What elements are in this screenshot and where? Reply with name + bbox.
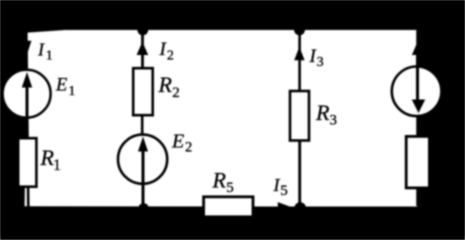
current source J (circle with down arrow)	[392, 54, 442, 116]
current arrow I1	[28, 41, 32, 53]
wire: bottom bus (merges with black border)	[27, 207, 416, 210]
junction: top of branch 2	[137, 25, 148, 36]
wire: right branch vertical (along white edge)	[416, 30, 419, 206]
current arrow I2	[137, 42, 149, 55]
resistor (right branch, unlabeled)	[406, 136, 429, 188]
junction: top of branch 3	[294, 25, 305, 36]
source E1 (circle with up arrow)	[3, 70, 51, 137]
wire: branch 3 upper (top bus to R3)	[298, 30, 301, 91]
current arrow I3	[294, 47, 304, 61]
resistor R3	[290, 91, 309, 141]
source E2 (circle with up arrow)	[118, 135, 167, 208]
wire: branch 3 lower (R3 to bottom bus)	[298, 140, 301, 208]
resistor R1	[18, 138, 36, 187]
wire: branch 2 upper (top bus to R2)	[141, 30, 144, 68]
resistor R5 (in bottom bus)	[204, 197, 253, 217]
current arrow at top of right branch	[412, 44, 417, 56]
junction: bottom of branch 2	[138, 203, 148, 213]
wire: top bus (node 1, merges with black border)	[27, 27, 416, 30]
resistor R2	[133, 68, 153, 115]
current arrow I5 (on bottom bus, pointing right)	[278, 202, 291, 212]
wire: branch 2 middle (R2 to E2)	[141, 115, 144, 137]
wire: left branch vertical (along white edge)	[26, 30, 28, 208]
junction: bottom of branch 3	[294, 202, 306, 214]
